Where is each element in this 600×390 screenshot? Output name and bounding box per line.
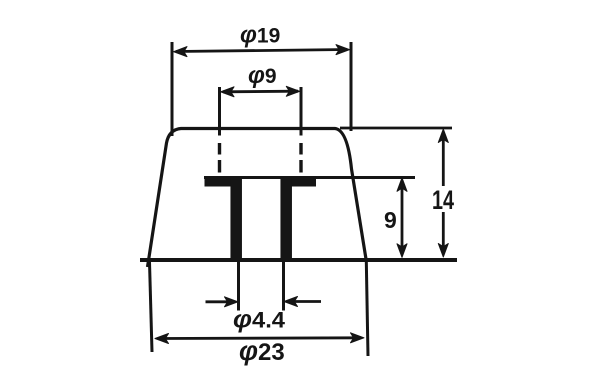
svg-text:φ19: φ19 <box>240 22 280 49</box>
dim 14 bottom arrowhead <box>438 244 448 258</box>
svg-text:φ23: φ23 <box>239 336 285 366</box>
dim 14 top extension line <box>340 127 452 130</box>
dim phi23 left extension line <box>150 262 153 352</box>
right bar <box>280 178 292 260</box>
dim phi9 line <box>223 90 298 93</box>
dim phi9 left hidden dashes <box>218 143 221 173</box>
dim 14 line upper segment <box>442 132 445 186</box>
dim phi19 left extension line <box>171 42 174 136</box>
svg-text:14: 14 <box>432 185 454 215</box>
bottom edge <box>140 258 457 262</box>
dim phi19 right extension line <box>350 42 353 131</box>
dim phi4.4 left arrowhead <box>225 297 239 307</box>
dim phi23 right extension line <box>366 261 368 356</box>
dim phi19 left arrowhead <box>174 47 188 57</box>
svg-text:φ9: φ9 <box>248 62 277 89</box>
dim phi19 right arrowhead <box>336 45 350 55</box>
right cap block <box>281 178 317 187</box>
dim 9 vertical line <box>401 181 404 254</box>
svg-text:9: 9 <box>384 207 397 233</box>
dim phi4.4 left leader <box>206 300 229 303</box>
left cap block <box>205 178 237 187</box>
dim phi9 right arrowhead <box>286 86 300 96</box>
dim phi19 line <box>176 50 347 52</box>
dim phi9 right extension line (solid part) <box>300 87 303 136</box>
dim 14 top arrowhead <box>438 129 448 143</box>
dim phi4.4 right arrowhead <box>284 297 298 307</box>
dim phi23 left arrowhead <box>155 334 169 344</box>
dim phi9 left arrowhead <box>221 87 235 97</box>
dim 9 bottom arrowhead <box>397 244 407 257</box>
dim phi4.4 right leader <box>294 300 321 303</box>
svg-text:φ4.4: φ4.4 <box>233 306 286 334</box>
dim phi9 right hidden dashes <box>299 143 302 173</box>
screw-boss cap line <box>204 176 415 179</box>
dim phi23 right arrowhead <box>351 333 365 343</box>
dim 9 top arrowhead <box>397 178 407 192</box>
dim phi23 line <box>158 336 361 340</box>
dim phi9 left extension line (solid part) <box>218 87 221 136</box>
body outline (trapezoid with rounded top corners) <box>148 129 367 268</box>
dim phi4.4 left extension line <box>237 262 240 311</box>
left bar <box>230 178 242 260</box>
dim phi4.4 right extension line <box>282 262 285 311</box>
dim 14 line lower segment <box>442 212 445 253</box>
